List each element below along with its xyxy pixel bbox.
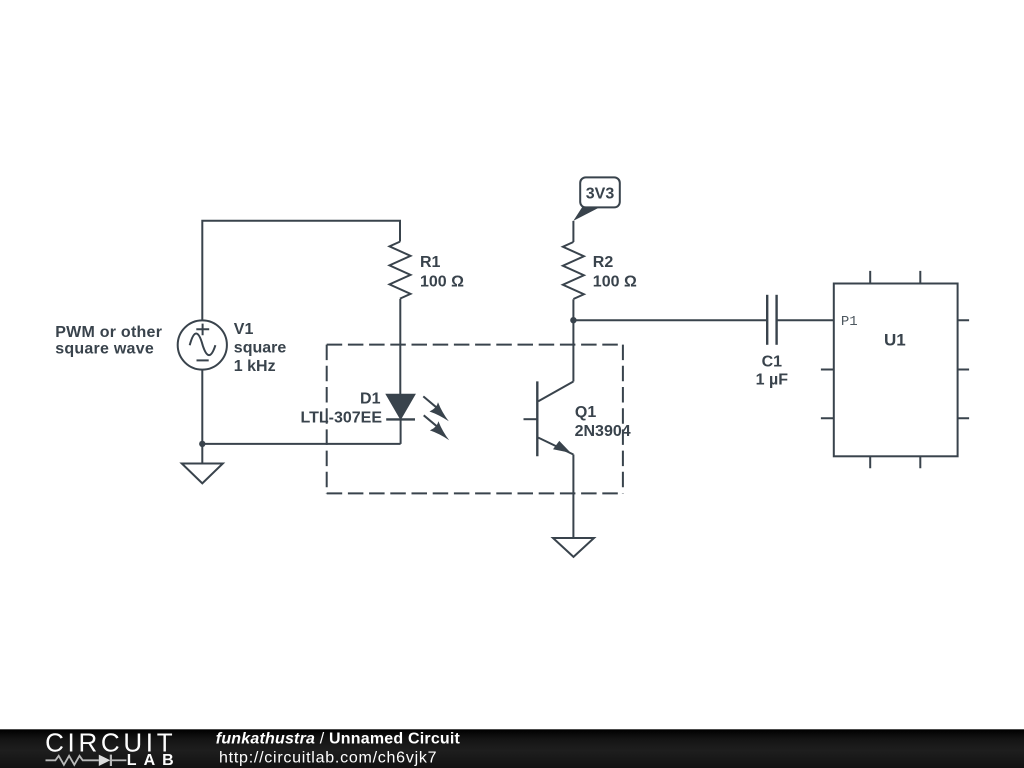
label D1 LTL-307EE [301,391,383,427]
label R2 100 ohm [593,254,637,290]
transistor Q1 collector wire [572,320,574,381]
transistor Q1 [524,381,574,456]
logo circuit glyph: resistor and diode line [46,755,127,766]
svg-text:R1: R1 [420,254,441,271]
logo LAB word [127,752,174,768]
svg-text:square: square [234,339,287,356]
LED light arrow 1 [423,396,449,421]
svg-text:3V3: 3V3 [586,186,615,203]
svg-text:http://circuitlab.com/ch6vjk7: http://circuitlab.com/ch6vjk7 [219,750,437,767]
svg-text:Q1: Q1 [575,404,596,421]
resistor R1 [390,242,411,299]
svg-text:V1: V1 [234,321,254,338]
wire V1 minus terminal to ground node [201,370,203,444]
svg-text:1 kHz: 1 kHz [234,358,276,375]
node junction at V1 bottom [199,441,205,447]
svg-text:square wave: square wave [55,340,154,357]
svg-text:P1: P1 [841,314,858,330]
wire R2 bottom to node [572,299,574,320]
footer title: funkathustra / Unnamed Circuit [216,730,461,766]
U1 top pins [870,271,920,284]
U1 left pins [821,370,834,419]
footer bar [0,729,1024,768]
3V3 supply flag [573,177,620,221]
svg-text:funkathustra / Unnamed Circuit: funkathustra / Unnamed Circuit [216,730,461,747]
label R1 100 ohm [420,254,464,290]
svg-text:R2: R2 [593,254,614,271]
svg-text:PWM or other: PWM or other [55,324,162,341]
svg-text:100 Ω: 100 Ω [420,274,464,291]
label V1 square 1 kHz [234,321,287,375]
wire R1 bottom to D1 anode [399,299,401,395]
label 3V3 [586,186,615,203]
wire from V1 plus terminal up and across to R1 [202,221,400,321]
logo CIRCUIT word [45,727,173,757]
voltage source V1 [178,320,227,369]
label C1 1uF [756,354,789,389]
svg-text:2N3904: 2N3904 [575,423,631,440]
svg-text:D1: D1 [360,391,381,408]
U1 bottom pins [870,456,920,468]
ground under V1 [182,464,223,484]
capacitor C1 [767,295,776,345]
label Q1 2N3904 [575,404,631,440]
U1 right pins [958,320,970,418]
label PWM or other square wave [55,324,162,358]
svg-text:C1: C1 [762,354,783,371]
wire 3V3 flag to R2 [572,221,574,242]
bottom wire from V1 to D1 branch [202,443,400,445]
pin label P1 [841,314,858,330]
svg-text:LAB: LAB [127,752,174,768]
wire node to ground [201,444,203,464]
svg-text:1 µF: 1 µF [756,372,789,389]
svg-text:100 Ω: 100 Ω [593,274,637,291]
label U1 [884,331,906,350]
LED D1 [386,395,415,420]
IC U1 body [834,284,958,457]
wire C1 right plate to U1 pin P1 [777,319,834,321]
resistor R2 [563,242,584,299]
svg-text:U1: U1 [884,331,906,350]
wire node to C1 left plate [573,319,767,321]
node junction collector/C1 [570,317,576,323]
LED light arrow 2 [424,415,450,440]
ground under Q1 [553,538,594,557]
wire Q1 emitter to ground [572,455,574,538]
optocoupler dashed boundary box [327,345,623,494]
wire D1 cathode down to bottom rail [400,419,402,444]
svg-text:LTL-307EE: LTL-307EE [301,410,383,427]
